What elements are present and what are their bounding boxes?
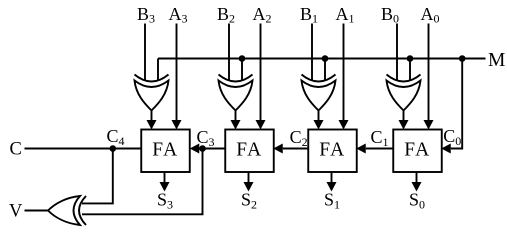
svg-text:C0: C0 bbox=[443, 126, 461, 148]
xor-gate X1 (B1 xor M) bbox=[302, 75, 336, 82]
arrow C0 into FA0 bbox=[441, 144, 451, 154]
svg-text:B2: B2 bbox=[217, 4, 235, 26]
wire B2 input bbox=[228, 24, 230, 82]
wire C3 to overflow xor bbox=[82, 149, 203, 215]
arrow XOR0 output into FA bbox=[399, 120, 409, 130]
arrow XOR2 output into FA bbox=[231, 120, 241, 130]
junction node C4 bbox=[110, 145, 117, 152]
wire C3 carry (FA2 to FA1) bbox=[199, 148, 225, 150]
full adder FA1 bbox=[308, 130, 357, 173]
svg-text:FA: FA bbox=[319, 140, 345, 161]
svg-text:B0: B0 bbox=[381, 4, 399, 26]
arrow S2 output bbox=[244, 182, 254, 192]
svg-text:V: V bbox=[9, 202, 23, 222]
arrow C1 into FA1 bbox=[356, 144, 366, 154]
xor-gate X2 (B2 xor M) bbox=[219, 75, 253, 82]
wire S0 output bbox=[416, 172, 418, 189]
wire M branch to XOR3 bbox=[157, 59, 159, 82]
wire C4 output to C bbox=[25, 148, 142, 150]
wire A0 input bbox=[428, 24, 430, 128]
xor-gate X0 (B0 xor M) bbox=[387, 75, 421, 82]
arrow S3 output bbox=[160, 182, 170, 192]
arrow A0 into FA bbox=[424, 120, 434, 130]
arrow S1 output bbox=[327, 182, 337, 192]
M control line bbox=[158, 58, 486, 60]
full adder FA0 bbox=[393, 130, 442, 173]
svg-text:S2: S2 bbox=[241, 190, 257, 212]
xor-gate X3 (B3 xor M) bbox=[135, 75, 169, 82]
wire S3 output bbox=[164, 172, 166, 189]
arrow S0 output bbox=[412, 182, 422, 192]
wire XOR1 output bbox=[318, 111, 320, 128]
wire A1 input bbox=[343, 24, 345, 128]
arrow C3 into FA3 bbox=[190, 144, 200, 154]
xor-gate overflow V = C4 xor C3 bbox=[79, 196, 86, 225]
arrow C2 into FA2 bbox=[273, 144, 283, 154]
arrow XOR1 output into FA bbox=[314, 120, 324, 130]
full adder FA2 bbox=[225, 130, 274, 173]
arrow A3 into FA bbox=[172, 120, 182, 130]
svg-text:S1: S1 bbox=[324, 190, 340, 212]
svg-text:A3: A3 bbox=[169, 4, 188, 26]
wire XOR2 output bbox=[235, 111, 237, 128]
svg-text:B3: B3 bbox=[137, 4, 155, 26]
wire C1 carry (FA0 to FA1) bbox=[366, 148, 393, 150]
junction M to C0 bbox=[459, 55, 466, 62]
wire S2 output bbox=[248, 172, 250, 189]
wire XOR3 output bbox=[151, 111, 153, 128]
wire B1 input bbox=[311, 24, 313, 82]
arrow A1 into FA bbox=[339, 120, 349, 130]
svg-text:C1: C1 bbox=[371, 127, 389, 149]
junction node C3 bbox=[199, 145, 206, 152]
wire C2 carry (FA1 to FA2) bbox=[283, 148, 308, 150]
svg-text:S3: S3 bbox=[157, 190, 173, 212]
svg-text:C: C bbox=[10, 140, 22, 160]
junction M branch 2 bbox=[239, 55, 246, 62]
wire C0 from M line bbox=[451, 59, 462, 149]
junction M branch 1 bbox=[322, 55, 329, 62]
svg-text:FA: FA bbox=[236, 140, 262, 161]
wire A3 input bbox=[176, 24, 178, 128]
wire M branch to XOR0 bbox=[409, 59, 411, 82]
svg-text:A2: A2 bbox=[253, 4, 272, 26]
arrow A2 into FA bbox=[256, 120, 266, 130]
svg-text:FA: FA bbox=[404, 140, 430, 161]
svg-text:B1: B1 bbox=[300, 4, 318, 26]
wire B0 input bbox=[396, 24, 398, 82]
wire V output bbox=[25, 210, 49, 212]
svg-text:A0: A0 bbox=[421, 4, 440, 26]
wire M branch to XOR2 bbox=[241, 59, 243, 82]
svg-text:M: M bbox=[488, 50, 505, 71]
wire C4 to overflow xor bbox=[82, 149, 113, 204]
svg-text:C4: C4 bbox=[107, 126, 125, 148]
svg-text:A1: A1 bbox=[336, 4, 355, 26]
wire XOR0 output bbox=[403, 111, 405, 128]
svg-text:FA: FA bbox=[152, 140, 178, 161]
wire S1 output bbox=[331, 172, 333, 189]
wire A2 input bbox=[260, 24, 262, 128]
arrow XOR3 output into FA bbox=[147, 120, 157, 130]
svg-text:C3: C3 bbox=[197, 127, 215, 149]
wire M branch to XOR1 bbox=[324, 59, 326, 82]
wire B3 input bbox=[144, 24, 146, 82]
full adder FA3 bbox=[141, 130, 190, 173]
junction M branch 0 bbox=[407, 55, 414, 62]
svg-text:C2: C2 bbox=[290, 127, 308, 149]
svg-text:S0: S0 bbox=[409, 190, 425, 212]
